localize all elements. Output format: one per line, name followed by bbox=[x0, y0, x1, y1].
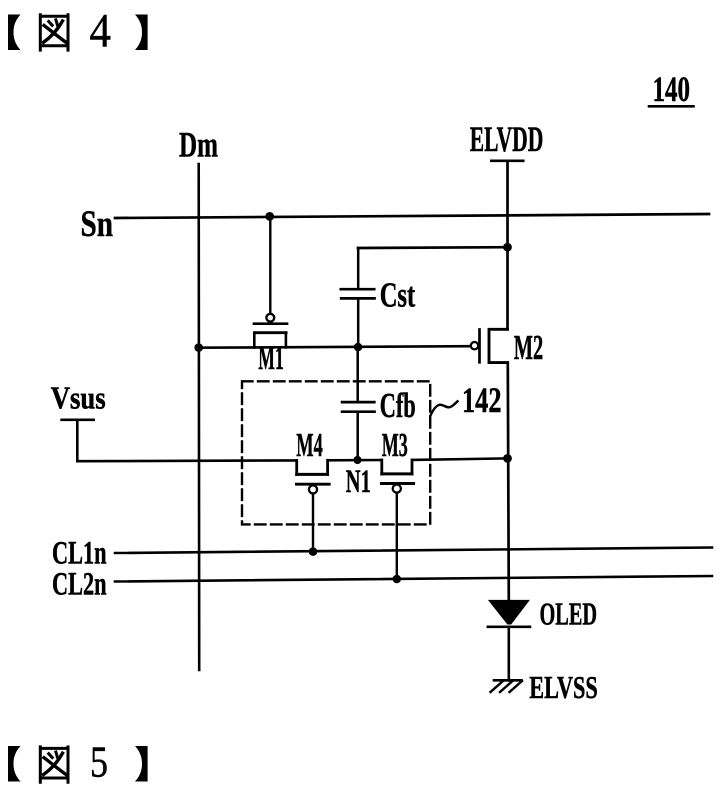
power Vsus terminal bar bbox=[62, 418, 94, 421]
wire Sn scan line bbox=[115, 214, 709, 218]
wire M2 drain down to OLED bbox=[508, 363, 509, 601]
power ELVDD terminal bar bbox=[491, 160, 523, 163]
wire Vsus stem bbox=[76, 420, 79, 461]
wire node A row (Dm to M2 gate) bbox=[199, 346, 471, 348]
transistor M1 bbox=[254, 314, 287, 348]
wire CL2n scan line bbox=[115, 576, 712, 582]
svg-text:M3: M3 bbox=[382, 427, 408, 464]
svg-text:Cfb: Cfb bbox=[380, 386, 416, 425]
capacitor Cfb bbox=[342, 347, 374, 460]
label 140 bbox=[649, 69, 694, 109]
wire Vsus row segment 3 (M3 to ELVDD line) bbox=[412, 458, 507, 460]
svg-text:M4: M4 bbox=[296, 427, 323, 464]
capacitor Cst bbox=[341, 248, 375, 347]
junction node N1 bbox=[353, 456, 361, 464]
wire Dm data line bbox=[197, 164, 200, 670]
wire Vsus row segment 1 bbox=[77, 459, 296, 462]
svg-text:142: 142 bbox=[462, 380, 502, 420]
transistor M4 bbox=[296, 460, 329, 493]
junction Vsus row / ELVDD line bbox=[503, 454, 512, 463]
junction M4 gate / CL1n bbox=[309, 547, 318, 556]
svg-text:Sn: Sn bbox=[81, 204, 114, 245]
svg-text:CL2n: CL2n bbox=[52, 566, 107, 602]
svg-text:N1: N1 bbox=[346, 464, 371, 500]
wire Vsus row segment 2 (M4 to M3) bbox=[328, 459, 381, 462]
wire M4 gate drop to CL1n bbox=[312, 494, 314, 552]
transistor M3 bbox=[381, 460, 413, 493]
wire M1 gate drop bbox=[269, 216, 271, 313]
junction M3 gate / CL2n bbox=[393, 575, 402, 584]
wire CL1n scan line bbox=[115, 548, 712, 554]
junction Sn / M1 gate bbox=[265, 212, 274, 221]
figure title 【図 4】 bbox=[8, 5, 148, 58]
squiggle to 142 bbox=[431, 401, 458, 415]
wire OLED cathode to ground bbox=[507, 627, 510, 680]
svg-text:M2: M2 bbox=[514, 328, 544, 367]
junction Cst link / ELVDD bbox=[503, 243, 512, 252]
svg-text:M1: M1 bbox=[258, 340, 284, 377]
svg-text:5: 5 bbox=[90, 738, 108, 787]
wire M3 gate drop to CL2n bbox=[396, 493, 398, 579]
diode OLED bbox=[488, 600, 530, 627]
dashed block 142 bbox=[242, 381, 430, 524]
transistor M2 bbox=[471, 329, 508, 362]
junction Cst bottom / node A row bbox=[354, 343, 363, 352]
svg-text:ELVDD: ELVDD bbox=[470, 119, 544, 159]
wire ELVDD drop to M2 source bbox=[506, 161, 509, 329]
wire Cst top link bbox=[358, 246, 508, 250]
svg-text:Cst: Cst bbox=[380, 275, 416, 314]
figure title 【図 5】 bbox=[8, 738, 148, 787]
svg-text:Vsus: Vsus bbox=[51, 379, 106, 415]
svg-text:ELVSS: ELVSS bbox=[529, 669, 598, 705]
junction Dm / node A row bbox=[194, 343, 203, 352]
ground ELVSS symbol bbox=[491, 680, 523, 692]
svg-text:OLED: OLED bbox=[540, 595, 598, 631]
svg-text:4: 4 bbox=[90, 5, 112, 58]
svg-text:Dm: Dm bbox=[179, 124, 218, 164]
svg-text:140: 140 bbox=[653, 69, 691, 109]
